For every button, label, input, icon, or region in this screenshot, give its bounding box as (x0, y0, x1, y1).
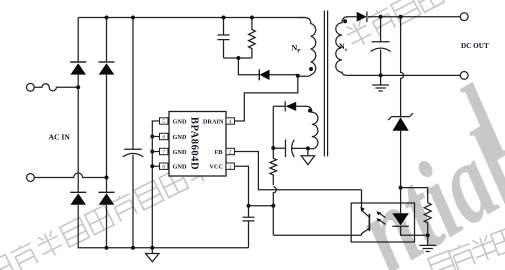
opto transistor collector (362, 190, 369, 217)
opto arrowheads (376, 211, 381, 215)
ground symbol under rail (146, 248, 159, 262)
snubber resistor R1 (249, 18, 256, 59)
VCC wire (235, 166, 274, 206)
fuse F1 (34, 84, 78, 91)
opto transistor emitter arrowhead (360, 207, 365, 212)
transformer primary winding NP (298, 18, 316, 77)
svg-text:GND: GND (173, 118, 187, 125)
IC pin numbers (162, 119, 232, 170)
node dots right (379, 15, 430, 238)
capacitor C1 bottom wire (132, 155, 134, 248)
wire aux diode to junction (272, 106, 274, 148)
DC- rail (348, 74, 460, 76)
aux diode D6 wire (273, 101, 285, 111)
diode D1 (70, 62, 86, 75)
svg-text:6: 6 (162, 135, 165, 141)
IC pin labels (173, 118, 224, 170)
AC terminal 1 (27, 83, 35, 91)
capacitor C3 vcc (243, 206, 255, 248)
svg-text:2: 2 (229, 150, 232, 156)
capacitor C1 plates (123, 149, 143, 157)
optocoupler box (351, 203, 414, 242)
transformer core (324, 11, 327, 157)
DRAIN wire (235, 76, 298, 121)
FB wire (235, 152, 362, 190)
opto light arrow 1 (378, 213, 385, 218)
DC OUT terminal + (460, 13, 468, 21)
svg-text:BPA8604D: BPA8604D (189, 117, 200, 170)
svg-text:8: 8 (162, 164, 165, 170)
wire bottom rail (78, 205, 248, 248)
zener ZD1 bar (388, 113, 413, 120)
zener column with hop (401, 17, 404, 117)
svg-text:DRAIN: DRAIN (203, 118, 224, 125)
wire node to resistor R3 (401, 188, 428, 203)
opto transistor bar (368, 214, 370, 231)
svg-text:GND: GND (173, 164, 187, 171)
IC GND bus (152, 121, 159, 248)
transformer secondary winding NS (336, 17, 357, 76)
svg-text:NP: NP (292, 44, 302, 55)
wire bridge column2 (106, 18, 108, 248)
polarity dot aux (308, 109, 312, 113)
diode D3 (70, 192, 86, 205)
IC pin boxes left (160, 118, 235, 170)
zener ZD1 triangle (393, 117, 409, 130)
snubber diode D5 wire (270, 74, 298, 76)
diode D5 snubber (259, 69, 269, 80)
watermark chinese line top-right (343, 0, 444, 50)
svg-text:GND: GND (173, 149, 187, 156)
svg-text:GND: GND (173, 134, 187, 141)
watermark chinese line bottom-right (427, 225, 505, 270)
wire AC2 with hop over column1 (34, 173, 106, 177)
svg-text:7: 7 (162, 150, 165, 156)
svg-text:1: 1 (229, 164, 232, 170)
diode D4 (99, 192, 115, 205)
secondary diode D7 triangle (357, 12, 367, 22)
zener to opto node (400, 131, 402, 188)
IC U1 body (169, 112, 226, 177)
junction dot aux left (271, 146, 275, 150)
polarity dot primary (309, 67, 313, 71)
svg-text:VCC: VCC (209, 164, 223, 171)
svg-text:AC IN: AC IN (49, 133, 71, 142)
opto LED triangle (392, 213, 409, 225)
opto light arrow 2 (378, 219, 385, 224)
resistor R3 (424, 203, 431, 236)
secondary rectifier diode D7 (367, 12, 460, 23)
aux resistor R2 (270, 148, 277, 185)
snubber capacitor C2 (218, 18, 230, 59)
svg-text:DC OUT: DC OUT (461, 42, 489, 50)
ground triangle aux (301, 149, 314, 165)
opto LED cathode wire (392, 226, 427, 235)
svg-text:FB: FB (214, 149, 223, 156)
node dots left (76, 16, 300, 250)
opto LED anode wire (400, 188, 402, 214)
DC OUT terminal - (460, 72, 468, 80)
capacitor C1 bulk top wire (132, 18, 134, 150)
earth ground opto (419, 235, 436, 251)
wire top rail (78, 17, 305, 19)
wire bridge column1 (77, 18, 79, 193)
aux capacitor C4 (273, 140, 308, 158)
wire opto emitter (273, 234, 361, 236)
transformer aux winding NA (296, 106, 318, 148)
output capacitor C5 (371, 17, 391, 76)
snubber bottom wire (224, 58, 260, 75)
svg-text:4: 4 (229, 119, 232, 125)
diode D2 (99, 62, 115, 75)
junction dot aux right (306, 146, 310, 150)
svg-text:Ns: Ns (339, 42, 347, 53)
opto transistor emitter (362, 228, 370, 235)
aux column hop over FB wire (273, 187, 276, 235)
polarity dot secondary (343, 19, 347, 23)
AC terminal 2 (27, 174, 35, 182)
svg-text:5: 5 (162, 119, 165, 125)
aux diode D6 (286, 102, 297, 111)
earth ground output (372, 75, 389, 91)
